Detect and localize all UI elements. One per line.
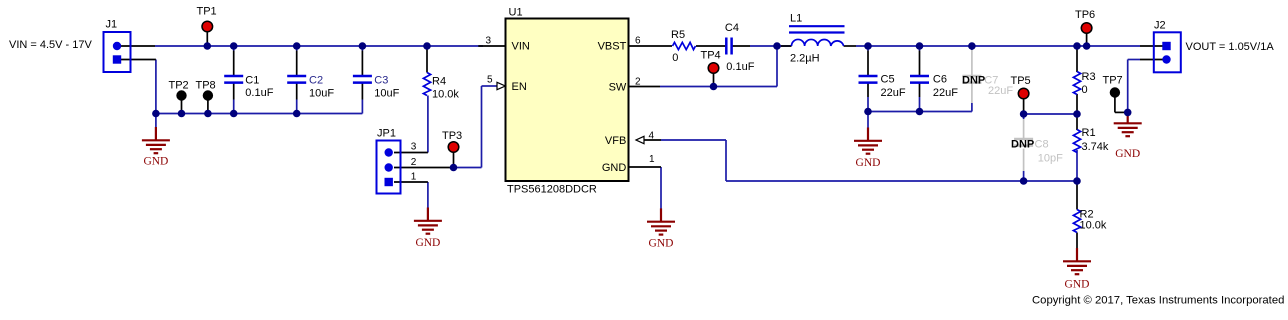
svg-text:10.0k: 10.0k: [1080, 220, 1107, 232]
svg-text:R4: R4: [432, 76, 446, 88]
svg-text:22uF: 22uF: [933, 87, 958, 99]
svg-text:22uF: 22uF: [881, 87, 906, 99]
svg-text:22uF: 22uF: [988, 85, 1013, 97]
svg-text:GND: GND: [649, 238, 674, 250]
svg-text:TP2: TP2: [169, 80, 189, 92]
svg-text:1: 1: [649, 154, 655, 165]
svg-text:EN: EN: [512, 81, 527, 93]
svg-text:R3: R3: [1082, 71, 1096, 83]
svg-text:C4: C4: [725, 22, 739, 34]
svg-text:TPS561208DDCR: TPS561208DDCR: [507, 184, 597, 196]
svg-text:0: 0: [1082, 84, 1088, 96]
svg-text:C8: C8: [1035, 139, 1049, 151]
svg-text:C3: C3: [374, 75, 388, 87]
svg-text:6: 6: [635, 36, 641, 47]
svg-text:GND: GND: [1115, 148, 1140, 160]
svg-text:R5: R5: [671, 29, 685, 41]
svg-text:DNP: DNP: [962, 75, 985, 87]
svg-text:C2: C2: [309, 75, 323, 87]
svg-text:2.2µH: 2.2µH: [790, 53, 820, 65]
svg-text:GND: GND: [1065, 279, 1090, 291]
svg-text:2: 2: [411, 157, 417, 168]
svg-text:VBST: VBST: [598, 41, 627, 53]
svg-text:R1: R1: [1082, 127, 1096, 139]
svg-text:TP4: TP4: [701, 50, 721, 62]
svg-text:TP6: TP6: [1075, 9, 1095, 21]
svg-text:3: 3: [486, 36, 492, 47]
svg-text:0.1uF: 0.1uF: [726, 61, 754, 73]
svg-text:J2: J2: [1154, 20, 1166, 32]
svg-text:Copyright © 2017, Texas Instru: Copyright © 2017, Texas Instruments Inco…: [1032, 295, 1284, 307]
svg-text:JP1: JP1: [377, 128, 396, 140]
svg-text:3: 3: [411, 142, 417, 153]
svg-text:L1: L1: [790, 13, 802, 25]
svg-text:VOUT = 1.05V/1A: VOUT = 1.05V/1A: [1186, 41, 1275, 53]
svg-text:3.74k: 3.74k: [1082, 141, 1109, 153]
svg-text:GND: GND: [602, 162, 627, 174]
svg-text:1: 1: [411, 172, 417, 183]
svg-text:GND: GND: [143, 156, 168, 168]
svg-text:DNP: DNP: [1011, 139, 1034, 151]
svg-text:GND: GND: [856, 157, 881, 169]
svg-text:J1: J1: [106, 19, 118, 31]
svg-text:2: 2: [635, 77, 641, 88]
svg-text:TP7: TP7: [1103, 75, 1123, 87]
svg-text:10uF: 10uF: [309, 88, 334, 100]
svg-text:C6: C6: [933, 74, 947, 86]
svg-text:TP1: TP1: [197, 6, 217, 18]
svg-text:VFB: VFB: [605, 135, 626, 147]
svg-text:U1: U1: [509, 7, 523, 19]
svg-text:VIN = 4.5V - 17V: VIN = 4.5V - 17V: [9, 39, 93, 51]
svg-text:0: 0: [672, 52, 678, 64]
svg-text:4: 4: [649, 131, 655, 142]
svg-text:SW: SW: [609, 82, 627, 94]
svg-text:C1: C1: [245, 75, 259, 87]
svg-text:GND: GND: [415, 237, 440, 249]
svg-text:10pF: 10pF: [1038, 153, 1063, 165]
svg-text:VIN: VIN: [512, 41, 530, 53]
svg-text:0.1uF: 0.1uF: [245, 87, 273, 99]
svg-text:5: 5: [487, 75, 493, 86]
svg-text:TP8: TP8: [196, 80, 216, 92]
svg-text:TP5: TP5: [1011, 75, 1031, 87]
svg-text:10.0k: 10.0k: [432, 89, 459, 101]
svg-text:10uF: 10uF: [374, 88, 399, 100]
svg-text:C5: C5: [881, 74, 895, 86]
svg-text:TP3: TP3: [442, 130, 462, 142]
